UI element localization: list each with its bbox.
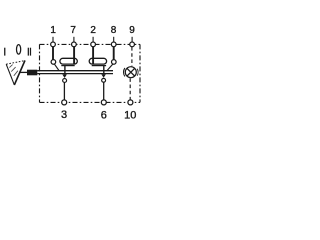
enclosure chain-line border left <box>39 44 41 102</box>
enclosure chain-line border right <box>139 44 141 102</box>
svg-text:2: 2 <box>90 25 96 36</box>
switch position label II <box>28 48 29 56</box>
actuator shaft double line <box>37 70 113 72</box>
pilot lamp <box>125 67 136 78</box>
svg-text:8: 8 <box>111 25 117 36</box>
fixed contact of terminal 1 <box>51 60 56 65</box>
svg-text:3: 3 <box>61 109 67 121</box>
svg-text:10: 10 <box>124 110 136 122</box>
svg-text:7: 7 <box>70 25 76 36</box>
enclosure chain-line border bottom <box>40 101 141 103</box>
dashed link lamp to terminal 10 <box>129 78 131 99</box>
terminal 7 <box>72 42 77 47</box>
terminal 6 <box>101 100 106 105</box>
arrow on stem 2 <box>101 74 106 78</box>
contact circle above terminal 6 <box>102 78 106 82</box>
moving bridge contact (pill) group 2 <box>89 58 106 64</box>
terminal 1 <box>51 42 56 47</box>
wire: down to terminal 6 <box>103 82 105 99</box>
terminal 2 <box>91 42 96 47</box>
moving bridge contact (pill) group 1 <box>60 58 77 64</box>
pill 2 carrier underline <box>92 65 106 67</box>
wire: terminal 8 lead <box>113 37 115 42</box>
wire: contact 1 to shaft diagonal <box>54 64 59 70</box>
mechanical coupling block <box>27 70 37 76</box>
terminal 3 <box>62 100 67 105</box>
contact circle above terminal 3 <box>63 79 67 83</box>
terminal 9 <box>130 42 135 47</box>
dashed link terminal 9 to lamp <box>131 47 133 66</box>
arrow on stem 1 <box>62 74 67 78</box>
wire: down to terminal 3 <box>63 83 65 100</box>
wire: lever to coupling <box>19 71 27 73</box>
switch position label 0 <box>17 45 21 55</box>
terminal 8 <box>111 42 116 47</box>
svg-text:1: 1 <box>50 25 56 36</box>
svg-text:6: 6 <box>101 110 107 122</box>
wire: terminal 1 lead <box>52 37 54 42</box>
terminal 10 <box>128 100 133 105</box>
wire: terminal 9 lead <box>131 37 133 42</box>
fixed contact of terminal 8 <box>112 60 117 65</box>
wire: terminal 7 lead <box>73 37 75 42</box>
switch position label I <box>4 48 5 56</box>
wire: shaft to contact 8 diagonal <box>107 64 113 71</box>
svg-text:9: 9 <box>129 25 135 36</box>
stem from pill 1 to shaft <box>64 66 66 75</box>
stem from pill 2 to shaft <box>103 66 105 75</box>
enclosure chain-line border top <box>40 43 141 45</box>
wire: terminal 2 lead <box>92 37 94 42</box>
lever triangle (manual actuator) <box>14 60 25 85</box>
pill 1 carrier underline <box>61 65 74 67</box>
